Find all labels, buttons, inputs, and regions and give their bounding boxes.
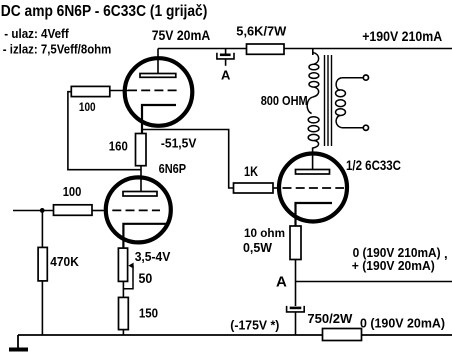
svg-text:0 (190V 20mA): 0 (190V 20mA) (360, 316, 445, 331)
tube V1 6N6P upper triode envelope (125, 58, 193, 126)
wire T1 primary to V3 plate (312, 148, 314, 170)
wire feedback from R2 left down to V2 plate node (68, 92, 141, 170)
svg-text:6N6P: 6N6P (159, 161, 187, 176)
svg-text:5,6K/7W: 5,6K/7W (236, 24, 287, 39)
V2 anode plate (123, 192, 157, 197)
wire output rail 0/+ (296, 281, 452, 283)
ammeter test point A2 (287, 306, 305, 335)
svg-text:(-175V *): (-175V *) (230, 318, 279, 333)
resistor R9 750/2W (323, 329, 362, 341)
P1 wiper tie to bottom (123, 266, 133, 289)
svg-text:A: A (276, 274, 287, 291)
wire rail right of R9 (362, 334, 452, 336)
ground rail bottom (18, 334, 323, 336)
wire secondary bottom lead (342, 127, 363, 129)
svg-text:+190V 210mA: +190V 210mA (362, 29, 442, 44)
wire R6 to ground rail (122, 329, 124, 335)
svg-text:- ulaz: 4Veff: - ulaz: 4Veff (4, 27, 69, 41)
svg-text:750/2W: 750/2W (307, 311, 353, 326)
svg-text:3,5-4V: 3,5-4V (135, 249, 171, 264)
V2 cathode (123, 224, 166, 248)
tube V3 6C33C envelope (279, 154, 347, 222)
svg-text:+ (190V 20mA): + (190V 20mA) (352, 258, 435, 273)
svg-text:150: 150 (139, 305, 158, 320)
svg-text:0,5W: 0,5W (243, 241, 272, 255)
transformer T1 primary lead from rail (312, 49, 314, 56)
wire secondary top lead (342, 77, 363, 79)
svg-text:DC amp 6N6P - 6C33C (1 grijač): DC amp 6N6P - 6C33C (1 grijač) (1, 3, 208, 20)
svg-text:1K: 1K (244, 164, 258, 179)
wire plate lead V1 up (157, 49, 159, 75)
wire R7 to V3 grid (273, 187, 281, 189)
T1 core (325, 55, 332, 146)
resistor R3 160 (136, 134, 147, 166)
resistor R2 100 grid stopper (71, 86, 110, 96)
ammeter test point A1 (217, 49, 234, 66)
resistor R6 150 (119, 297, 129, 329)
resistor R7 1K (234, 183, 274, 193)
tube V2 6N6P lower triode envelope (106, 177, 171, 242)
svg-text:800 OHM: 800 OHM (261, 93, 308, 108)
svg-text:50: 50 (139, 271, 153, 286)
resistor R1 5,6K/7W (247, 44, 285, 54)
wire V1 cathode to grid of V3 horizontal (142, 130, 234, 189)
resistor R8 10 ohm (290, 226, 301, 260)
V3 anode plate (296, 170, 330, 175)
V1 anode plate (140, 74, 176, 78)
V1 grid dashed (128, 89, 177, 91)
P1 wiper arrow (128, 263, 133, 269)
resistor R4 100 input (54, 205, 93, 216)
svg-text:160: 160 (109, 139, 128, 154)
svg-text:10 ohm: 10 ohm (244, 226, 285, 240)
wire input (13, 210, 54, 212)
svg-text:A: A (221, 67, 231, 82)
wire R2 to V1 grid (110, 90, 128, 92)
wire P1 to R6 (122, 281, 124, 297)
wire +190V rail (284, 48, 452, 50)
wire R5 to ground rail (41, 281, 43, 335)
T1 secondary winding (336, 78, 346, 128)
junction node input (40, 208, 45, 213)
V2 grid dashed (112, 209, 160, 211)
potentiometer P1 50 (118, 248, 127, 281)
terminal top (363, 75, 368, 80)
svg-text:,: , (444, 246, 448, 261)
T1 primary winding lower (307, 97, 319, 148)
svg-text:- izlaz: 7,5Veff/8ohm: - izlaz: 7,5Veff/8ohm (3, 43, 112, 57)
V3 cathode (296, 203, 333, 226)
svg-text:-51,5V: -51,5V (161, 135, 197, 150)
svg-text:100: 100 (79, 102, 96, 114)
wire junction to R5 (41, 211, 43, 248)
wire R3 bottom to V2 plate (140, 166, 142, 192)
svg-text:75V 20mA: 75V 20mA (152, 28, 211, 43)
wire top rail from V1 plate to resistor R1 (158, 48, 247, 50)
svg-text:1/2 6C33C: 1/2 6C33C (346, 158, 401, 173)
ground symbol (17, 335, 19, 348)
svg-text:470K: 470K (50, 254, 79, 269)
V1 cathode (142, 105, 176, 134)
terminal bottom (363, 125, 368, 130)
resistor R5 470K (38, 247, 47, 281)
wire R8 down to A2 (295, 260, 297, 307)
T1 primary winding upper (309, 53, 319, 98)
V3 grid dashed (283, 187, 345, 189)
wire R4 to V2 grid (92, 210, 107, 212)
svg-text:100: 100 (63, 184, 82, 199)
